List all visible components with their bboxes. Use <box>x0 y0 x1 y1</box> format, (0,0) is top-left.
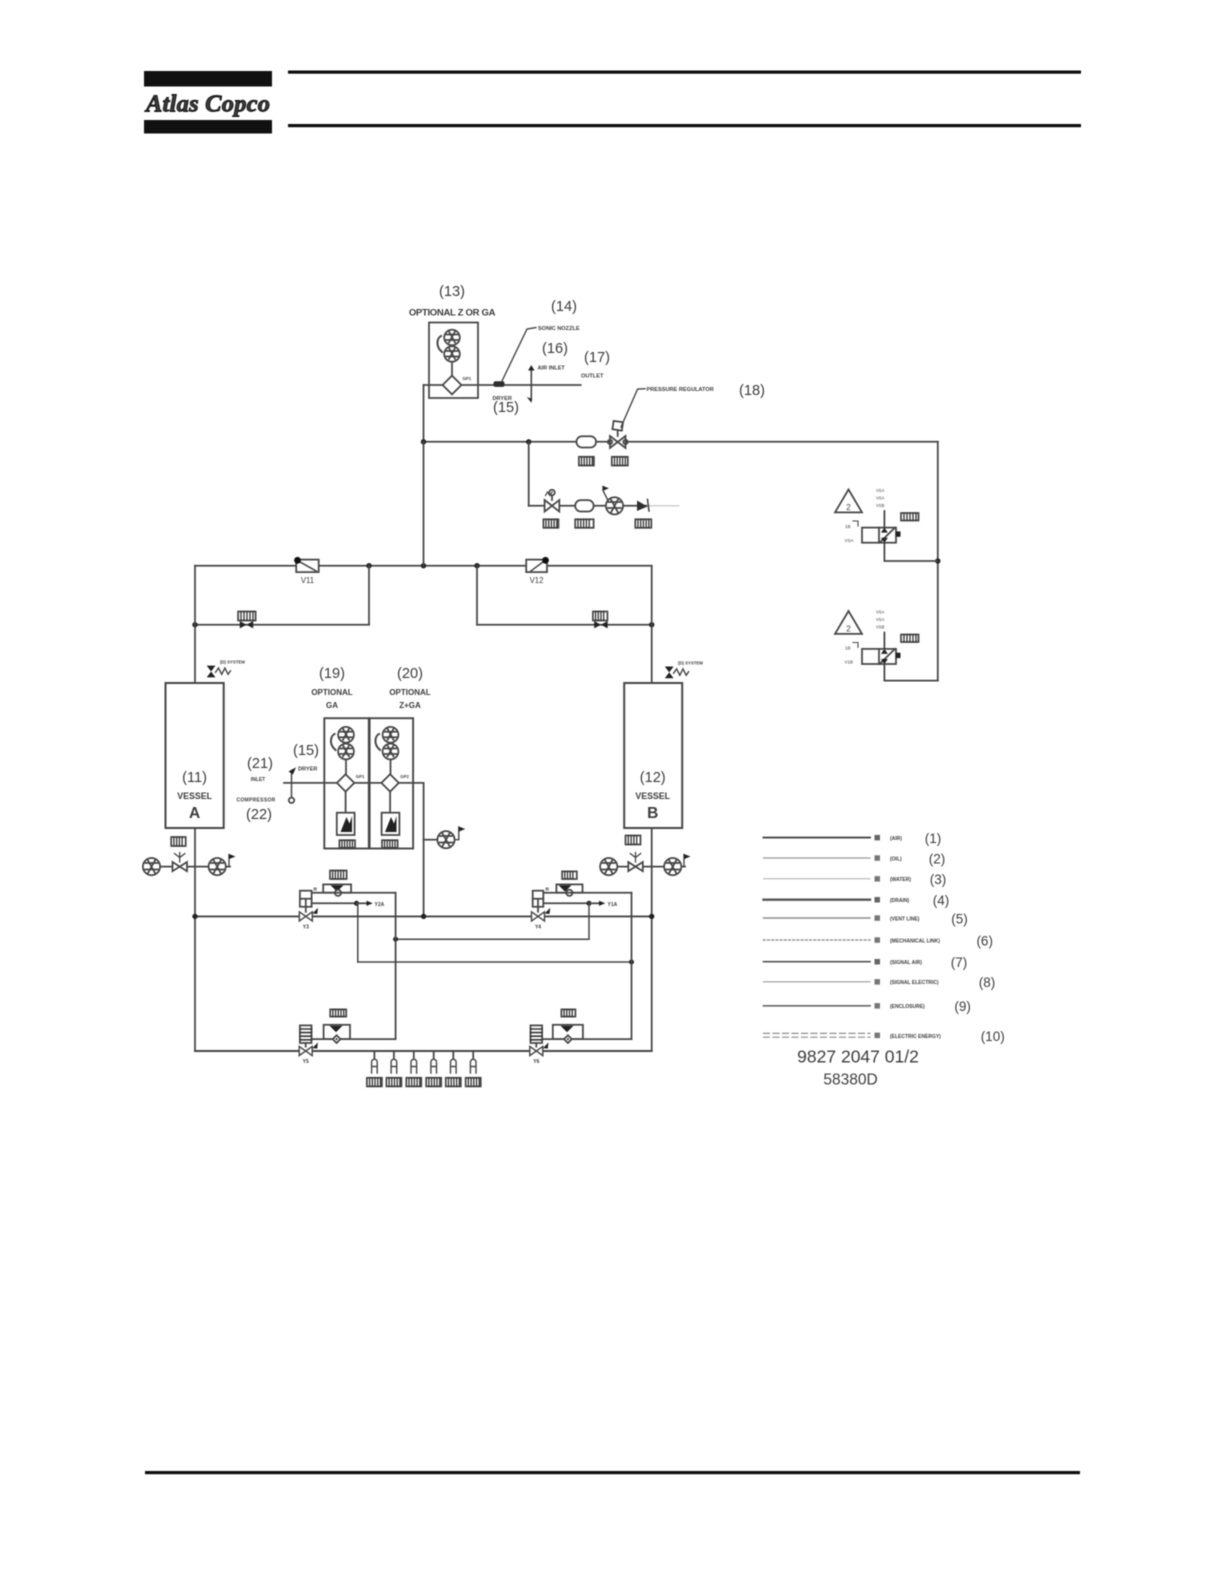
drain connection stub 6 <box>466 1051 481 1086</box>
wire inlet run through dryers <box>284 782 413 784</box>
svg-text:VSB: VSB <box>876 503 885 508</box>
legend line mechanical link (6) <box>764 933 993 948</box>
svg-text:(AIR): (AIR) <box>890 836 902 842</box>
exhaust valve right Y6 <box>530 1009 632 1065</box>
node junction at dewpoint branch <box>526 439 531 444</box>
svg-text:B: B <box>647 805 658 822</box>
filter GP1 diamond <box>443 376 472 395</box>
compressor inlet stub <box>289 767 297 803</box>
check valve on right return <box>594 621 607 628</box>
vent flag at gauge <box>603 486 609 500</box>
labels (15) DRYER top <box>493 396 519 416</box>
legend line vent (5) <box>764 911 968 926</box>
wire branch drop <box>528 442 530 506</box>
labels COMPRESSOR (22) <box>236 798 275 824</box>
labels (17) OUTLET <box>581 350 610 380</box>
pressure switch assembly lower (VSA) <box>835 610 938 681</box>
svg-text:OPTIONAL: OPTIONAL <box>389 688 430 697</box>
svg-text:Y1A: Y1A <box>608 902 618 908</box>
svg-text:(WATER): (WATER) <box>890 877 911 883</box>
wire regeneration header <box>195 565 652 567</box>
pressure switch assembly upper (VSA) <box>835 488 938 561</box>
tag box under branch filter <box>575 519 593 528</box>
drain connection stub 3 <box>406 1051 421 1086</box>
sonic nozzle symbol (14) <box>494 381 505 387</box>
label PRESSURE REGULATOR (18) <box>647 383 765 399</box>
svg-text:(15): (15) <box>293 743 319 759</box>
optional dryer labels (19)(20) <box>311 666 430 710</box>
svg-text:Y5: Y5 <box>303 1059 309 1065</box>
filter on header line <box>577 436 597 447</box>
wire main line from (13) to outlet <box>424 384 581 386</box>
wire right tower pipe upper <box>651 566 653 683</box>
bracket mark in GA box <box>331 734 336 750</box>
pressure regulator valve (18) <box>608 421 628 448</box>
dewpoint gauge <box>606 497 623 514</box>
wire GP1 to drain trap <box>345 792 347 813</box>
svg-text:(20): (20) <box>397 666 423 682</box>
svg-text:(SIGNAL ELECTRIC): (SIGNAL ELECTRIC) <box>890 980 939 986</box>
legend line enclosure (9) <box>764 999 971 1014</box>
drain trap box in GA <box>337 813 355 835</box>
svg-text:1B: 1B <box>845 524 851 529</box>
logo top bar <box>144 71 272 87</box>
svg-text:(19): (19) <box>319 666 345 682</box>
svg-text:PRESSURE REGULATOR: PRESSURE REGULATOR <box>647 387 714 393</box>
svg-text:1B: 1B <box>845 646 851 651</box>
tag box under hand valve <box>543 519 558 528</box>
needle valve on purge B <box>628 853 643 872</box>
svg-text:(12): (12) <box>640 770 666 786</box>
silencer gauge A left <box>143 858 160 875</box>
tag box under regulator <box>612 457 628 466</box>
needle valve on purge A <box>173 853 188 872</box>
svg-text:(1): (1) <box>925 831 942 846</box>
svg-text:(16): (16) <box>542 341 568 357</box>
svg-text:9827 2047 01/2: 9827 2047 01/2 <box>797 1047 919 1067</box>
legend line air (1) <box>764 831 942 846</box>
filter GP1 diamond in GA box <box>337 774 365 792</box>
leader to sonic nozzle label <box>502 328 536 382</box>
tag box in Z+GA <box>382 840 398 848</box>
header rule bottom <box>288 124 1081 127</box>
gauge circles in GA box <box>338 727 354 743</box>
gauge circles in Z+GA box <box>383 727 399 743</box>
wire branch run <box>529 505 648 507</box>
legend line water (3) <box>764 872 947 887</box>
inlet selector valve right Y2 <box>532 871 632 930</box>
optional dryer unit (13) label <box>409 284 496 319</box>
svg-text:B: B <box>546 887 550 893</box>
tag box on left return <box>238 612 256 621</box>
legend line signal air (7) <box>764 955 968 970</box>
vent flag outlet gauge <box>455 827 466 840</box>
svg-text:(OIL): (OIL) <box>890 856 902 862</box>
vent flag purge A <box>229 854 236 867</box>
legend line drain (4) <box>764 893 950 908</box>
exhaust valve left Y5 <box>299 1009 395 1065</box>
svg-text:SONIC NOZZLE: SONIC NOZZLE <box>538 326 580 332</box>
svg-text:Atlas Copco: Atlas Copco <box>144 91 270 118</box>
svg-text:VESSEL: VESSEL <box>635 791 670 801</box>
node right tower tee <box>649 914 654 919</box>
tag box under vessel B <box>626 836 641 845</box>
node right drop junction <box>474 563 479 568</box>
svg-text:Y3: Y3 <box>303 925 309 931</box>
wire left return run <box>195 624 369 626</box>
svg-text:V12: V12 <box>530 576 544 585</box>
svg-text:V1B: V1B <box>845 660 854 665</box>
svg-text:(ELECTRIC ENERGY): (ELECTRIC ENERGY) <box>890 1034 941 1040</box>
node dryer leg tee <box>421 914 426 919</box>
svg-text:VSA: VSA <box>876 617 885 622</box>
svg-text:VSA: VSA <box>845 538 854 543</box>
wire right drop <box>476 566 478 625</box>
tag box under vessel A <box>171 837 186 846</box>
svg-text:GP2: GP2 <box>400 774 409 779</box>
silencer gauge B right <box>664 858 681 875</box>
node on right droparm <box>935 558 940 563</box>
vessel B (12) <box>624 683 682 828</box>
dryer Z+GA enclosure box <box>370 718 414 848</box>
svg-text:(3): (3) <box>930 872 947 887</box>
svg-text:Y2A: Y2A <box>375 902 385 908</box>
labels (16) AIR INLET <box>538 341 568 372</box>
tag box under check valve <box>635 519 651 528</box>
svg-text:VSA: VSA <box>876 496 885 501</box>
valve V11 <box>294 557 319 585</box>
svg-text:Y4: Y4 <box>535 925 541 931</box>
node right return tee <box>649 622 654 627</box>
svg-text:2: 2 <box>846 503 851 512</box>
silencer gauge B left <box>600 858 617 875</box>
svg-text:B: B <box>314 887 318 893</box>
svg-text:DRYER: DRYER <box>298 767 317 773</box>
wire left tower pipe upper <box>194 566 196 683</box>
svg-text:(D) SYSTEM: (D) SYSTEM <box>220 660 245 665</box>
svg-text:(21): (21) <box>247 756 273 772</box>
wire right return run <box>477 624 652 626</box>
wire right droparm <box>937 442 939 681</box>
gauge circle top in (13) <box>444 330 460 346</box>
node dryer-leg junction <box>421 563 426 568</box>
drain connection stub 5 <box>446 1051 461 1086</box>
purge silencer line A <box>160 866 230 868</box>
leader to pressure regulator label <box>621 389 645 427</box>
svg-text:(2): (2) <box>929 851 946 866</box>
logo bottom bar <box>144 120 272 134</box>
wire pilot left drop <box>357 903 359 962</box>
drain trap box in Z+GA <box>382 813 400 835</box>
wire GP2 to drain trap <box>389 792 391 813</box>
header rule top <box>288 71 1081 74</box>
svg-text:(22): (22) <box>246 807 272 823</box>
labels (21) INLET <box>247 756 273 783</box>
gauge circle bottom in (13) <box>444 346 460 362</box>
svg-text:(ENCLOSURE): (ENCLOSURE) <box>890 1004 925 1010</box>
svg-text:(5): (5) <box>951 911 968 926</box>
svg-text:AIR INLET: AIR INLET <box>538 366 566 372</box>
drain connection stub 1 <box>367 1051 382 1086</box>
legend line signal electric (8) <box>764 975 996 990</box>
svg-text:GP1: GP1 <box>356 774 365 779</box>
silencer gauge A right <box>209 858 226 875</box>
outlet gauge stub <box>424 839 438 841</box>
svg-text:(17): (17) <box>584 350 610 366</box>
wire outlet riser right <box>631 893 633 1039</box>
tag box under filter <box>579 457 594 466</box>
wire (13) down leg <box>423 385 425 442</box>
purge silencer line B <box>617 866 685 868</box>
check valve on left return <box>240 621 253 628</box>
node left return tee <box>192 622 197 627</box>
svg-text:OPTIONAL Z OR GA: OPTIONAL Z OR GA <box>409 308 496 319</box>
svg-text:Z+GA: Z+GA <box>399 701 421 710</box>
node crossover upper left <box>393 937 398 942</box>
svg-text:VSA: VSA <box>876 488 885 493</box>
wire left tower pipe lower <box>194 828 196 1051</box>
drain connection stub 4 <box>426 1051 441 1086</box>
outlet gauge <box>437 831 454 848</box>
node junction at dryer leg <box>421 439 426 444</box>
wire dryer outlet corner <box>413 783 424 917</box>
svg-text:2: 2 <box>846 625 851 634</box>
svg-text:(10): (10) <box>981 1029 1005 1044</box>
check valve on branch <box>637 500 649 512</box>
vessel A (11) <box>166 683 224 828</box>
svg-text:(13): (13) <box>439 284 465 300</box>
svg-text:(4): (4) <box>933 893 950 908</box>
labels (15) DRYER center <box>293 743 319 773</box>
svg-text:GA: GA <box>326 701 338 710</box>
svg-text:58380D: 58380D <box>823 1072 877 1089</box>
svg-text:(14): (14) <box>551 299 577 315</box>
svg-text:(18): (18) <box>739 383 765 399</box>
wire right tower pipe lower <box>651 828 653 1051</box>
svg-text:INLET: INLET <box>251 777 265 783</box>
wire gauge to filter GP1 <box>451 362 453 376</box>
wire crossover lower <box>358 961 632 963</box>
svg-text:VSA: VSA <box>876 610 885 615</box>
sonic nozzle label (14) <box>538 299 580 332</box>
dryer (13) enclosure box <box>429 323 478 399</box>
legend line electric energy (10) <box>764 1029 1005 1044</box>
footer rule <box>145 1471 1080 1474</box>
node left drop junction <box>366 563 371 568</box>
svg-text:COMPRESSOR: COMPRESSOR <box>236 798 275 804</box>
legend line oil (2) <box>764 851 946 866</box>
hand valve on branch <box>545 490 560 512</box>
wire pilot right drop <box>588 903 590 939</box>
inlet selector valve left Y1 <box>299 871 395 931</box>
tag box in GA <box>339 840 355 848</box>
wire inlet distribution line <box>195 915 652 917</box>
relief valve on vessel A <box>207 660 246 678</box>
dryer GA enclosure box <box>324 718 369 848</box>
node left tower tee <box>192 914 197 919</box>
bracket mark in Z+GA box <box>375 734 380 750</box>
svg-text:OPTIONAL: OPTIONAL <box>311 688 352 697</box>
wire purge exhaust line <box>195 1050 652 1052</box>
wire crossover upper <box>396 938 589 940</box>
svg-text:(9): (9) <box>954 999 971 1014</box>
svg-text:(DRAIN): (DRAIN) <box>890 898 909 904</box>
wire gauges to GP1 <box>345 759 347 774</box>
svg-text:V11: V11 <box>301 576 314 585</box>
wire left drop <box>368 566 370 625</box>
wire gauges to GP2 <box>390 759 392 774</box>
vent flag purge B <box>684 854 691 867</box>
svg-text:GP1: GP1 <box>463 376 472 381</box>
svg-text:(MECHANICAL LINK): (MECHANICAL LINK) <box>890 938 940 944</box>
valve V12 <box>526 557 549 585</box>
air inlet flow marker (16) <box>527 365 535 403</box>
svg-text:(D) SYSTEM: (D) SYSTEM <box>678 661 703 666</box>
svg-text:(8): (8) <box>979 975 996 990</box>
bracket mark left of gauges <box>437 336 442 352</box>
svg-text:VSB: VSB <box>876 625 885 630</box>
svg-text:(7): (7) <box>951 955 968 970</box>
filter GP2 diamond in Z+GA box <box>381 774 409 792</box>
svg-text:(15): (15) <box>493 400 519 416</box>
svg-text:OUTLET: OUTLET <box>581 374 604 380</box>
node crossover lower right <box>629 960 634 965</box>
wire main header line <box>424 441 938 443</box>
svg-text:Y6: Y6 <box>533 1059 539 1065</box>
svg-text:(VENT LINE): (VENT LINE) <box>890 916 920 922</box>
wire faint continuation <box>648 505 680 507</box>
svg-text:VESSEL: VESSEL <box>177 791 212 801</box>
wire outlet riser left <box>395 893 397 1039</box>
wire dryer leg upper <box>423 442 425 566</box>
svg-text:(11): (11) <box>182 770 207 786</box>
relief valve on vessel B <box>665 661 703 679</box>
svg-text:(SIGNAL AIR): (SIGNAL AIR) <box>890 960 922 966</box>
drain connection stub 2 <box>386 1051 401 1086</box>
svg-text:(6): (6) <box>976 933 993 948</box>
svg-text:A: A <box>189 805 200 822</box>
filter on branch <box>575 500 593 511</box>
tag box on right return <box>593 612 608 621</box>
